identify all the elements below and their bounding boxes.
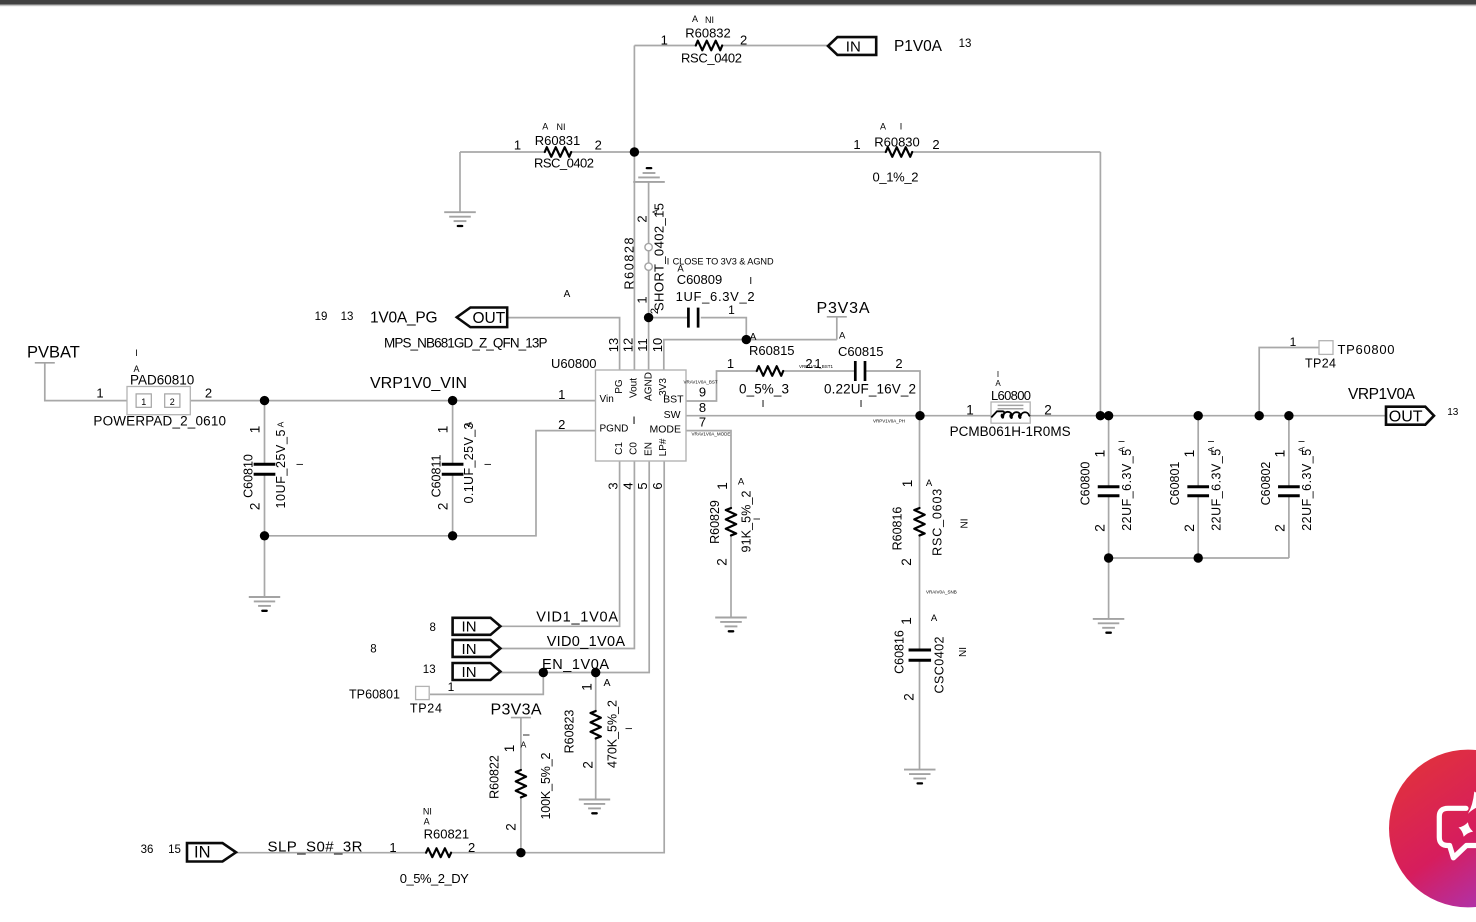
- top toolbar bar: [0, 0, 1476, 5]
- svg-text:1: 1: [715, 482, 730, 490]
- wire U60800 pin11 AGND up to junction: [648, 318, 650, 370]
- page refs 36 15: [141, 844, 181, 856]
- resistor R60822: [488, 734, 554, 831]
- svg-text:1: 1: [728, 303, 735, 317]
- svg-text:A: A: [603, 677, 610, 689]
- net label VID1_1V0A: [536, 610, 618, 626]
- svg-text:2: 2: [932, 137, 939, 152]
- node A (PG wire): [564, 289, 571, 300]
- svg-text:R60828: R60828: [623, 237, 637, 289]
- flag IN VID0_1V0A: [453, 640, 501, 658]
- svg-text:NI: NI: [958, 647, 969, 657]
- svg-text:P1V0A: P1V0A: [894, 38, 943, 55]
- wire BST net: pin9 through R60815 and C60815 to rail: [686, 371, 920, 416]
- svg-text:8: 8: [370, 644, 376, 656]
- svg-text:I: I: [624, 727, 634, 730]
- svg-text:0.1UF_25V_3: 0.1UF_25V_3: [462, 422, 476, 503]
- svg-text:C60811: C60811: [429, 455, 443, 498]
- flag IN P1V0A: [828, 37, 876, 55]
- page ref 13 (VRP1V0A): [1447, 407, 1459, 418]
- testpoint TP60801 TP24: [349, 680, 455, 715]
- svg-text:1: 1: [900, 480, 915, 488]
- svg-text:C1: C1: [614, 442, 625, 455]
- svg-text:R60832: R60832: [685, 26, 731, 41]
- svg-text:1: 1: [141, 397, 146, 407]
- svg-text:C60801: C60801: [1168, 462, 1182, 506]
- svg-text:AGND: AGND: [643, 372, 654, 401]
- svg-text:1: 1: [1091, 449, 1107, 457]
- svg-text:I: I: [135, 348, 138, 358]
- svg-text:NI: NI: [705, 15, 714, 25]
- svg-text:36: 36: [141, 844, 154, 856]
- svg-text:1: 1: [1290, 335, 1297, 349]
- pin 5: [635, 482, 650, 489]
- wire C60811 branch: [452, 401, 454, 536]
- svg-text:A: A: [1116, 446, 1126, 452]
- svg-text:10: 10: [650, 338, 665, 352]
- ground inverted (SHORT top / AGND): [633, 168, 665, 182]
- pin 8: [699, 400, 706, 415]
- svg-text:6: 6: [650, 482, 665, 489]
- svg-text:R60823: R60823: [563, 710, 577, 754]
- svg-text:PAD60810: PAD60810: [130, 373, 194, 388]
- svg-text:2: 2: [503, 823, 518, 831]
- svg-text:I: I: [752, 518, 762, 521]
- capacitor C60800: [1079, 440, 1134, 532]
- svg-text:1: 1: [502, 745, 517, 753]
- svg-text:2: 2: [902, 693, 917, 701]
- ground (C60816): [904, 770, 936, 784]
- svg-text:Vout: Vout: [629, 378, 640, 398]
- junction EN at TP60801 branch: [539, 668, 548, 677]
- svg-text:VRAV1V0A_BST: VRAV1V0A_BST: [684, 380, 718, 385]
- net label VRPV1V0A_PH: [873, 418, 905, 423]
- svg-text:I: I: [900, 122, 903, 132]
- svg-text:1: 1: [248, 426, 263, 434]
- svg-text:C60809: C60809: [677, 272, 723, 287]
- wire U60800 pin10 3V3 to P3V3A: [664, 340, 837, 370]
- svg-text:13: 13: [959, 38, 972, 50]
- junction SLP row at R60822: [516, 848, 525, 857]
- svg-text:3V3: 3V3: [658, 378, 669, 396]
- wire C60809 left to AGND junction: [649, 317, 689, 319]
- svg-text:IN: IN: [462, 664, 477, 681]
- svg-text:I: I: [749, 276, 752, 287]
- svg-text:VRP1V0_VIN: VRP1V0_VIN: [370, 375, 467, 392]
- svg-text:2: 2: [1272, 524, 1288, 532]
- svg-text:2: 2: [715, 558, 730, 566]
- wire R60816/C60816 branch: [919, 416, 921, 770]
- junction cap ground row at C60800: [1104, 553, 1113, 562]
- svg-text:RSC_0402: RSC_0402: [534, 156, 594, 171]
- pin 1: [558, 387, 565, 402]
- svg-text:A: A: [1206, 446, 1216, 452]
- resistor R60832 (NI): [661, 14, 748, 66]
- resistor R60831 (NI): [514, 122, 602, 171]
- svg-text:IN: IN: [462, 619, 477, 636]
- node A (P3V3A stem): [839, 331, 846, 342]
- jumper R60828 SHORT_0402_15: [623, 203, 667, 314]
- svg-text:VRP1V0A: VRP1V0A: [1348, 386, 1416, 403]
- svg-text:0_1%_2: 0_1%_2: [873, 170, 919, 185]
- svg-text:OUT: OUT: [472, 310, 505, 327]
- svg-text:A: A: [692, 14, 698, 24]
- wire net EN_1V0A: [500, 461, 650, 673]
- svg-text:2: 2: [468, 840, 475, 855]
- svg-text:OUT: OUT: [1389, 409, 1423, 426]
- svg-text:IN: IN: [846, 38, 861, 55]
- wire SHORT R60828 vertical (AGND branch): [648, 182, 650, 318]
- wire output cap ground row: [1109, 557, 1289, 559]
- junction PGND at C60811.2: [448, 531, 457, 540]
- power symbol PVBAT: [27, 344, 80, 363]
- svg-text:A: A: [542, 122, 548, 132]
- svg-text:2: 2: [899, 558, 914, 566]
- pin 12: [621, 338, 636, 352]
- flag OUT VRP1V0A: [1386, 407, 1434, 426]
- svg-text:IN: IN: [462, 641, 477, 658]
- svg-text:10UF_25V_5: 10UF_25V_5: [274, 429, 288, 508]
- svg-text:2: 2: [595, 138, 602, 153]
- IC U60800: [551, 356, 686, 461]
- svg-text:2: 2: [205, 386, 212, 401]
- svg-text:A: A: [839, 331, 846, 342]
- net label SLP_S0#_3R: [268, 839, 363, 856]
- capacitor C60811: [429, 421, 493, 510]
- wire net SLP_S0#_3R to U60800 pin6 LP#: [236, 461, 665, 853]
- svg-text:R60822: R60822: [488, 755, 502, 799]
- svg-text:22UF_6.3V_5: 22UF_6.3V_5: [1209, 449, 1223, 531]
- svg-text:P3V3A: P3V3A: [817, 300, 870, 317]
- svg-text:1: 1: [579, 683, 594, 691]
- svg-text:A: A: [651, 209, 661, 215]
- svg-text:1: 1: [853, 137, 860, 152]
- svg-text:1: 1: [1181, 449, 1197, 457]
- wire R60831.1 to ground: [459, 152, 461, 212]
- ground (output caps): [1093, 619, 1125, 633]
- wire net VID1_1V0A: [500, 461, 620, 626]
- svg-text:VRAV1V0A_MODE: VRAV1V0A_MODE: [692, 432, 731, 437]
- svg-text:C0: C0: [629, 442, 640, 455]
- junction rail at C60801: [1194, 411, 1203, 420]
- svg-text:1: 1: [899, 617, 914, 625]
- wire net VRP1V0_VIN: [190, 400, 595, 402]
- pin 7: [699, 415, 706, 430]
- svg-text:11: 11: [635, 338, 650, 352]
- svg-text:2: 2: [1181, 524, 1197, 532]
- junction 3V3 node A: [742, 335, 751, 344]
- svg-text:MODE: MODE: [650, 424, 682, 436]
- svg-text:VRAIV0A_SNB: VRAIV0A_SNB: [926, 590, 957, 595]
- svg-text:0_5%_2_DY: 0_5%_2_DY: [400, 871, 469, 886]
- svg-text:A: A: [880, 122, 886, 132]
- net label EN_1V0A: [542, 657, 609, 673]
- resistor R60816 (NI): [890, 478, 970, 566]
- svg-text:C60802: C60802: [1259, 462, 1273, 506]
- svg-text:A: A: [931, 613, 938, 624]
- pin 2: [558, 417, 565, 432]
- flag OUT 1V0A_PG: [457, 308, 508, 328]
- svg-text:2: 2: [1044, 403, 1052, 418]
- svg-text:1: 1: [635, 296, 650, 303]
- page ref 13 (P1V0A): [959, 38, 972, 50]
- svg-text:A: A: [750, 332, 757, 343]
- svg-text:4: 4: [620, 482, 635, 489]
- flag IN EN_1V0A: [453, 663, 501, 681]
- node A (3V3 junction): [750, 332, 757, 343]
- junction VRP1V0_VIN at C60811: [448, 396, 457, 405]
- svg-text:Vin: Vin: [600, 394, 614, 405]
- wire C60809 right to node A: [701, 318, 747, 340]
- svg-text:8: 8: [699, 400, 706, 415]
- svg-text:1: 1: [448, 680, 455, 694]
- page ref 8 (VID1): [429, 622, 435, 634]
- wire C60800.2 to ground: [1108, 558, 1110, 619]
- flag IN VID1_1V0A: [453, 618, 501, 636]
- junction PGND at C60810.2: [260, 531, 269, 540]
- inductor L60800 PCMB061H-1R0MS: [950, 370, 1071, 439]
- svg-text:PGND: PGND: [600, 424, 629, 435]
- resistor R60821 (NI): [389, 807, 475, 886]
- net label VRP1V0A_BST1: [799, 364, 834, 369]
- svg-text:SW: SW: [664, 409, 681, 421]
- resistor R60815: [727, 343, 813, 410]
- svg-text:SHORT_0402_15: SHORT_0402_15: [652, 203, 667, 311]
- svg-text:R60815: R60815: [749, 343, 795, 358]
- pin 11: [635, 338, 650, 352]
- junction rail at TP60800 branch: [1255, 411, 1264, 420]
- junction rail at R60830 branch: [1096, 411, 1105, 420]
- svg-text:1: 1: [1272, 449, 1288, 457]
- net label VRAIV0A_SNB: [926, 590, 957, 595]
- svg-text:NI: NI: [960, 519, 971, 529]
- svg-text:I: I: [762, 399, 765, 410]
- part name MPS_NB681GD_Z_QFN_13P: [384, 336, 548, 351]
- wire TP60800 branch: [1259, 348, 1319, 416]
- wire P3V3A stem: [836, 317, 838, 339]
- net label VRP1V0_VIN: [370, 375, 467, 392]
- ground (R60823): [579, 800, 610, 814]
- net label P1V0A: [894, 38, 943, 55]
- svg-text:C60815: C60815: [838, 344, 884, 359]
- svg-text:A: A: [424, 817, 430, 827]
- svg-text:I: I: [1297, 440, 1307, 442]
- capacitor C60816 (NI): [893, 613, 970, 701]
- svg-text:1: 1: [661, 33, 668, 48]
- svg-text:470K_5%_2: 470K_5%_2: [606, 700, 620, 768]
- capacitor C60802: [1259, 440, 1314, 532]
- wire C60810 branch: [264, 401, 266, 536]
- testpoint TP60800 TP24: [1290, 335, 1395, 371]
- wire R60829.2 to ground: [730, 536, 732, 618]
- svg-text:8: 8: [429, 622, 435, 634]
- svg-text:22UF_6.3V_5: 22UF_6.3V_5: [1120, 449, 1134, 531]
- capacitor C60815: [814, 344, 916, 410]
- svg-text:IN: IN: [194, 844, 211, 862]
- capacitor C60801: [1168, 440, 1223, 532]
- svg-text:A: A: [463, 421, 473, 427]
- svg-text:SLP_S0#_3R: SLP_S0#_3R: [268, 839, 363, 856]
- svg-text:1: 1: [727, 356, 734, 371]
- svg-text:I: I: [667, 257, 670, 267]
- svg-text:2: 2: [581, 761, 596, 769]
- svg-text:2: 2: [740, 33, 747, 48]
- ground (R60831 pin1): [444, 212, 476, 226]
- wire SW net VRPV1V0A_PH main rail: [686, 415, 1385, 417]
- junction VRP1V0_VIN at C60810: [260, 396, 269, 405]
- svg-text:2: 2: [248, 503, 263, 511]
- svg-text:R60831: R60831: [535, 133, 581, 148]
- note CLOSE TO 3V3 & AGND: [667, 257, 774, 267]
- svg-text:I: I: [1206, 440, 1216, 442]
- page ref 8 (VID0): [370, 644, 376, 656]
- svg-text:TP60800: TP60800: [1338, 342, 1395, 357]
- svg-text:VID1_1V0A: VID1_1V0A: [536, 610, 618, 626]
- svg-text:PVBAT: PVBAT: [27, 344, 80, 362]
- wire PVBAT to PAD60810.1: [45, 364, 127, 401]
- power symbol P3V3A (bottom): [491, 702, 542, 719]
- junction cap ground row at C60801: [1194, 553, 1203, 562]
- svg-text:I: I: [997, 370, 999, 379]
- net label 1V0A_PG: [370, 310, 438, 327]
- ground (C60810): [249, 597, 280, 611]
- junction AGND/SHORT/C60809: [644, 313, 653, 322]
- svg-text:0.22UF_16V_2: 0.22UF_16V_2: [824, 382, 916, 397]
- page refs 19 13 (1V0A_PG): [315, 311, 354, 323]
- wire C60800 branch: [1108, 416, 1110, 558]
- svg-text:A: A: [738, 477, 745, 488]
- svg-text:A: A: [564, 289, 571, 300]
- svg-text:0_5%_3: 0_5%_3: [739, 382, 789, 397]
- svg-text:12: 12: [621, 338, 636, 352]
- capacitor C60810: [241, 421, 305, 510]
- pin 10: [650, 338, 665, 352]
- svg-text:RSC_0402: RSC_0402: [681, 51, 742, 66]
- svg-text:I: I: [860, 399, 863, 410]
- junction R60831/R60832/R60830 node: [630, 147, 639, 156]
- svg-text:TP24: TP24: [410, 702, 442, 716]
- svg-text:NI: NI: [423, 807, 432, 817]
- wire net P1V0A (R60832 row): [634, 45, 827, 47]
- svg-text:5: 5: [635, 482, 650, 489]
- svg-text:LP#: LP#: [658, 438, 669, 456]
- wire P3V3A to R60822: [520, 718, 522, 853]
- svg-text:CSC0402: CSC0402: [933, 636, 947, 693]
- svg-text:9: 9: [699, 385, 706, 400]
- pin 6: [650, 482, 665, 489]
- capacitor C60809: [676, 264, 755, 328]
- svg-text:2: 2: [558, 417, 565, 432]
- resistor R60823: [563, 677, 635, 769]
- svg-text:2: 2: [436, 503, 451, 511]
- flag IN SLP_S0#_3R: [187, 843, 236, 862]
- net label VRAV1V0A_MODE: [692, 432, 731, 437]
- wire net VID0_1V0A: [500, 461, 635, 649]
- svg-text:13: 13: [423, 664, 436, 676]
- svg-text:C60810: C60810: [241, 454, 255, 498]
- svg-text:I: I: [295, 463, 305, 466]
- wire C60802 branch: [1288, 416, 1290, 558]
- svg-text:2: 2: [649, 308, 661, 314]
- svg-text:PCMB061H-1R0MS: PCMB061H-1R0MS: [950, 424, 1071, 439]
- svg-text:PG: PG: [614, 379, 625, 394]
- svg-text:C60816: C60816: [893, 630, 907, 674]
- svg-text:100K_5%_2: 100K_5%_2: [539, 752, 553, 819]
- svg-text:91K_5%_2: 91K_5%_2: [740, 490, 754, 552]
- svg-text:TP24: TP24: [1305, 357, 1336, 371]
- svg-text:TP60801: TP60801: [349, 688, 400, 702]
- wire TP60801 branch: [430, 673, 543, 695]
- wire R60832.1 to R60831/R60830 node: [633, 46, 635, 153]
- wire R60830.2 down to VRP1V0A rail: [1099, 152, 1101, 416]
- net label VRAV1V0A_BST: [684, 380, 718, 385]
- net label VRP1V0A: [1348, 386, 1416, 403]
- svg-text:POWERPAD_2_0610: POWERPAD_2_0610: [93, 413, 226, 428]
- pin 3: [606, 482, 621, 489]
- logo pink chat-bubble badge: [1389, 750, 1476, 908]
- svg-text:1: 1: [966, 403, 974, 418]
- resistor R60830: [853, 122, 939, 185]
- svg-text:2: 2: [170, 397, 175, 407]
- power symbol P3V3A (top): [817, 300, 870, 317]
- wire MODE net: pin7 to R60829: [686, 431, 731, 508]
- wire PGND return row: [265, 431, 596, 536]
- wire C60810.2 to ground: [264, 536, 266, 597]
- svg-text:13: 13: [1447, 407, 1459, 418]
- pad PAD60810 POWERPAD_2_0610: [93, 348, 226, 428]
- pin 9: [699, 385, 706, 400]
- svg-text:22UF_6.3V_5: 22UF_6.3V_5: [1300, 449, 1314, 531]
- svg-text:15: 15: [168, 844, 181, 856]
- svg-text:1UF_6.3V_2: 1UF_6.3V_2: [676, 289, 755, 304]
- ground (R60829): [715, 618, 747, 632]
- svg-text:1: 1: [514, 138, 521, 153]
- resistor R60829: [708, 477, 762, 566]
- wire U60800 pin13 PG to OUT flag 1V0A_PG: [508, 318, 620, 370]
- svg-text:C60800: C60800: [1079, 462, 1093, 506]
- svg-text:1: 1: [558, 387, 565, 402]
- wire R60823 branch: [595, 673, 597, 800]
- svg-text:VRPV1V0A_PH: VRPV1V0A_PH: [873, 418, 905, 423]
- svg-text:2: 2: [895, 356, 902, 371]
- svg-text:CLOSE TO 3V3 & AGND: CLOSE TO 3V3 & AGND: [673, 257, 774, 267]
- svg-text:3: 3: [606, 482, 621, 489]
- svg-text:7: 7: [699, 415, 706, 430]
- svg-text:2: 2: [635, 215, 650, 222]
- svg-text:1: 1: [814, 356, 821, 371]
- wire C60801 branch: [1197, 416, 1199, 558]
- wire U60800 pin12 Vout up to y=152 node: [633, 152, 635, 370]
- svg-text:A: A: [1297, 446, 1307, 452]
- net label VID0_1V0A: [547, 634, 626, 650]
- svg-text:EN: EN: [643, 442, 654, 456]
- svg-text:U60800: U60800: [551, 356, 597, 371]
- svg-text:13: 13: [606, 338, 621, 352]
- svg-text:I: I: [522, 734, 532, 737]
- svg-text:R60829: R60829: [708, 500, 722, 544]
- pin 4: [620, 482, 635, 489]
- svg-text:2: 2: [1091, 524, 1107, 532]
- svg-text:P3V3A: P3V3A: [491, 702, 542, 719]
- svg-text:19: 19: [315, 311, 328, 323]
- junction rail at R60816: [915, 411, 924, 420]
- svg-text:R60816: R60816: [890, 507, 904, 551]
- svg-text:R60821: R60821: [424, 827, 470, 842]
- svg-text:I: I: [632, 415, 635, 427]
- svg-text:I: I: [1116, 440, 1126, 442]
- svg-text:A: A: [995, 379, 1001, 388]
- svg-text:13: 13: [341, 311, 354, 323]
